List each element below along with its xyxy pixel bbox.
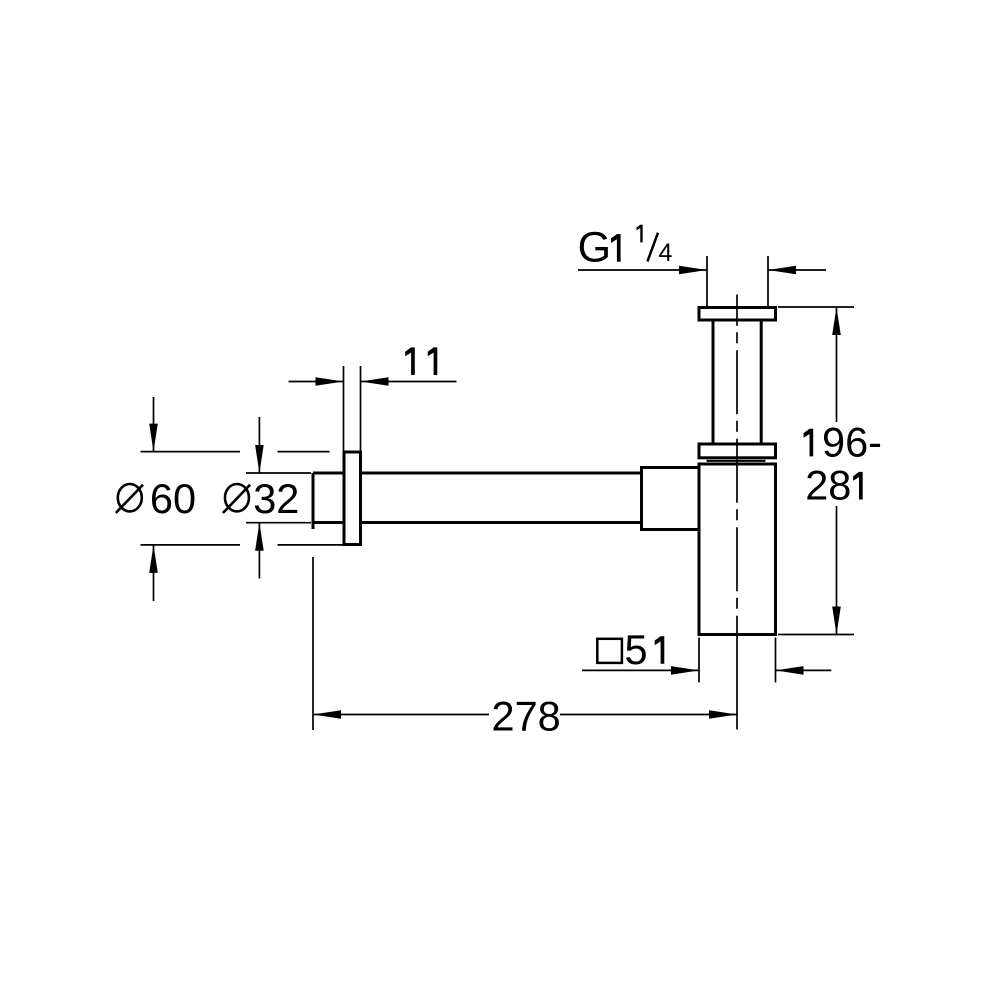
dia 60 bottom arrowhead [149,545,158,573]
union nut [699,444,776,458]
dim 196-281 top extension line [778,306,854,308]
dim 51 extension line left [698,638,700,683]
dim 11 right arrow line [361,381,457,383]
svg-text:28: 28 [805,462,851,509]
dim 278 left extension line [312,557,314,730]
dim 278 dimension line left segment [313,714,489,716]
dim square 51 symbol [597,639,622,663]
dia 60 top arrow line [153,397,155,452]
pipe left end cap [312,473,315,529]
dia 60 top arrowhead [149,424,158,452]
dim 51 right arrow line [776,669,832,671]
G1 1/4 right arrowhead [768,266,796,275]
G1 1/4 left arrowhead [679,266,707,275]
center line solid lower segment [736,635,738,730]
dim 196-281 bottom extension line [778,634,854,636]
G1 1/4 extension line right [767,256,769,306]
dim 278 right arrowhead [709,710,737,719]
svg-text:G: G [578,224,611,272]
dia 60 bottom arrow line [153,545,155,601]
dim 196-281 dimension line lower segment [836,506,838,635]
G1 fraction numerator 1 [637,225,643,243]
svg-text:4: 4 [659,239,673,267]
center line dash-dot [736,295,738,635]
wall flange [344,452,361,545]
dim 11 extension line left [343,366,345,452]
trap body [699,464,776,635]
dim 51 left arrowhead [671,666,699,675]
dim 11 extension line right [360,366,362,452]
vertical inlet pipe left line [712,320,715,444]
dim 11 left arrowhead [316,377,344,386]
dia 32 bottom extension line [246,522,311,524]
sleeve connector at trap inlet [642,468,700,530]
dia 32 symbol slash [223,485,250,513]
dim 51 extension line right [775,638,777,683]
dim 51 right arrowhead [776,666,804,675]
G1 fraction slash [647,233,658,262]
dim 196-281 dimension line upper segment [836,307,838,422]
dia 32 symbol circle [225,484,249,511]
horizontal outlet pipe bottom line [313,521,642,524]
dia 60 bottom extension line [141,544,241,546]
dim 11 right arrowhead [361,377,389,386]
dim 278 dimension line right segment [560,714,737,716]
dia 60 top extension line [141,451,241,453]
svg-text:60: 60 [150,475,196,522]
dim 11 left arrow line [289,381,344,383]
horizontal outlet pipe top line [313,472,642,475]
dim 196-281 top arrowhead [832,307,841,335]
dim 196-281 bottom arrowhead [832,607,841,635]
dim 196-281 label line 1 [804,429,814,457]
vertical inlet pipe right line [760,320,763,444]
dim 278 left arrowhead [313,710,341,719]
dim 11 label [405,347,415,375]
dia 32 bottom arrow line [258,523,260,579]
dia 60 symbol slash [116,485,143,513]
G1 1/4 extension line left [706,256,708,306]
dia 32 top arrow line [258,417,260,473]
G1 1/4 right arrow line [768,269,826,271]
dia 32 top extension line [246,472,311,474]
svg-text:32: 32 [253,475,299,522]
svg-text:96-: 96- [822,418,882,465]
svg-text:278: 278 [492,693,561,740]
dia 32 top arrowhead [255,445,264,473]
dim 51 left arrow line [582,669,699,671]
dia 60 symbol circle [118,484,142,511]
svg-text:5: 5 [625,626,648,673]
top flange [699,308,776,321]
G1 1/4 leader line [578,269,707,271]
washer [707,460,766,462]
dia 32 bottom arrowhead [255,523,264,551]
